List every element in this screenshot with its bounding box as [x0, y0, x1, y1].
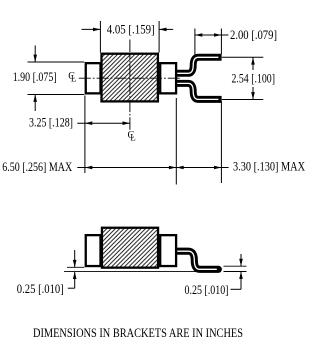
- lead (side view): [177, 251, 219, 269]
- right tab (top view): [160, 63, 176, 93]
- dim 2.54 top arrow: [251, 57, 255, 70]
- dim left 0.25 bottom arrow and leader: [68, 272, 77, 289]
- package body (top view): [102, 54, 158, 102]
- dim 6.50 line and arrows: [77, 166, 176, 170]
- dim 1.90 top arrow: [33, 46, 37, 63]
- extension line 3.30 right: [220, 101, 222, 183]
- extension line 1.90 bottom: [28, 94, 85, 96]
- dim right 0.25 top arrow: [239, 254, 243, 266]
- dim 2.54 bottom arrow: [251, 87, 255, 100]
- svg-text:2.00 [.079]: 2.00 [.079]: [230, 27, 277, 42]
- extension line 2.54 bottom: [222, 99, 263, 101]
- vertical centerline upper segment: [129, 40, 131, 53]
- dim 4.05 right arrow: [159, 28, 173, 32]
- dim 4.05 left arrow: [82, 28, 101, 32]
- vertical centerline dashed segment: [129, 54, 131, 131]
- upper lead (top view): [177, 57, 222, 73]
- svg-text:3.30 [.130] MAX: 3.30 [.130] MAX: [233, 159, 305, 174]
- svg-text:DIMENSIONS IN BRACKETS ARE IN: DIMENSIONS IN BRACKETS ARE IN INCHES: [33, 326, 243, 340]
- svg-text:L: L: [130, 133, 136, 143]
- svg-text:0.25 [.010]: 0.25 [.010]: [185, 282, 229, 297]
- horizontal centerline: [79, 77, 182, 79]
- centerline symbol below body: [128, 130, 136, 142]
- svg-text:1.90 [.075]: 1.90 [.075]: [13, 69, 57, 84]
- svg-text:6.50 [.256] MAX: 6.50 [.256] MAX: [2, 159, 72, 174]
- left tab (side view): [86, 235, 101, 266]
- extension line left 0.25 top: [67, 266, 84, 268]
- right tab (side view): [160, 235, 176, 266]
- dim right 0.25 bottom arrow and leader: [231, 272, 243, 290]
- extension line left end of package: [84, 96, 86, 174]
- left tab (top view): [86, 63, 101, 93]
- extension line 4.05 right: [158, 21, 160, 53]
- dim 3.25 line and arrows: [77, 121, 130, 125]
- extension line 4.05 left: [99, 21, 101, 53]
- seating plane line: [64, 271, 203, 273]
- package body (side view): [102, 228, 158, 268]
- dim 3.30 line and arrows: [176, 166, 228, 170]
- extension line right 0.25 bottom: [224, 271, 247, 273]
- extension line 2.00 left: [194, 29, 196, 56]
- extension line 3.30 left: [175, 98, 177, 185]
- svg-text:L: L: [71, 74, 77, 84]
- extension line 2.00 right: [220, 29, 222, 55]
- lower lead (top view): [177, 83, 222, 99]
- svg-text:4.05 [.159]: 4.05 [.159]: [107, 21, 155, 36]
- extension line 2.54 top: [222, 56, 263, 58]
- extension line right 0.25 top: [224, 265, 247, 267]
- svg-text:0.25 [.010]: 0.25 [.010]: [17, 281, 64, 296]
- svg-text:3.25 [.128]: 3.25 [.128]: [29, 115, 73, 130]
- centerline symbol left: [68, 71, 76, 84]
- dim 1.90 bottom arrow: [33, 95, 37, 112]
- dim 2.00 line and arrows: [195, 33, 229, 37]
- dim left 0.25 top arrow: [73, 250, 77, 267]
- svg-text:2.54 [.100]: 2.54 [.100]: [232, 70, 276, 85]
- extension line 1.90 top: [28, 61, 85, 63]
